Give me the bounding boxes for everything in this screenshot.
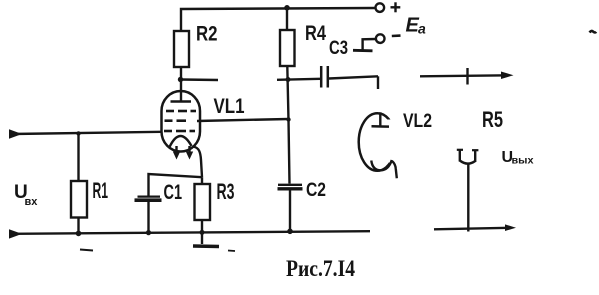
svg-text:a: a bbox=[418, 21, 426, 37]
svg-text:C1: C1 bbox=[164, 181, 183, 204]
svg-text:VL2: VL2 bbox=[403, 111, 432, 132]
svg-text:вых: вых bbox=[512, 156, 534, 167]
svg-text:C2: C2 bbox=[306, 180, 326, 201]
svg-text:Рис.7.I4: Рис.7.I4 bbox=[286, 256, 355, 281]
svg-text:вх: вх bbox=[25, 196, 39, 208]
svg-text:R5: R5 bbox=[482, 107, 503, 132]
svg-text:R4: R4 bbox=[305, 22, 326, 45]
svg-text:R1: R1 bbox=[93, 178, 109, 203]
svg-text:VL1: VL1 bbox=[214, 94, 245, 118]
svg-text:C3: C3 bbox=[329, 38, 348, 59]
svg-text:R3: R3 bbox=[217, 179, 235, 204]
svg-text:R2: R2 bbox=[196, 23, 218, 46]
